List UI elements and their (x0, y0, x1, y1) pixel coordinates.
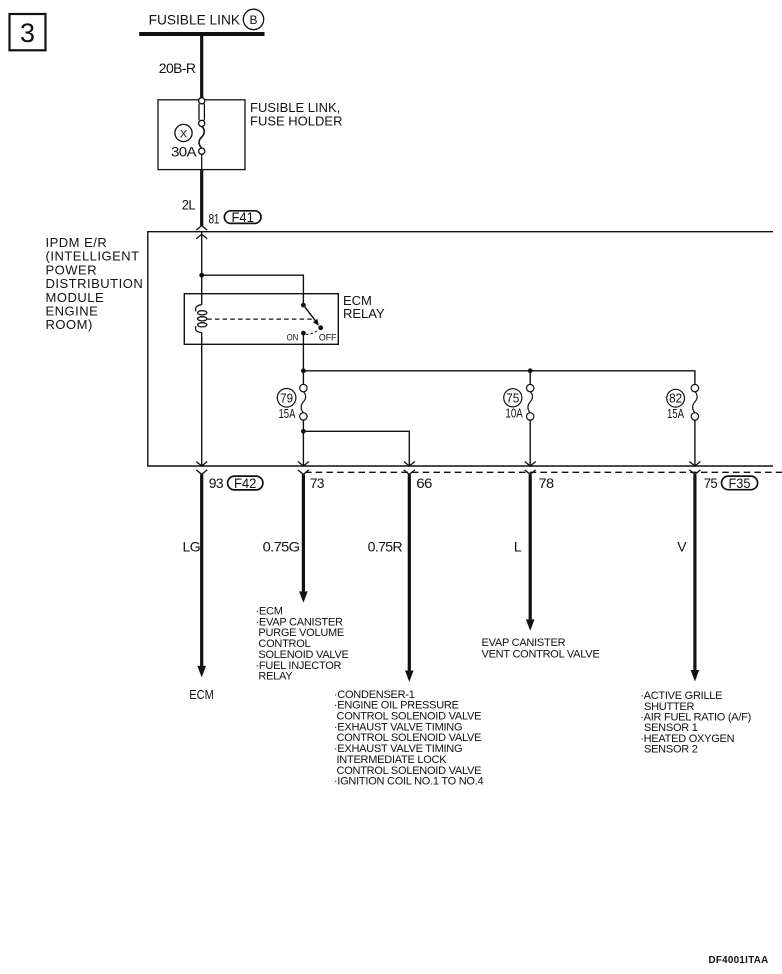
ECM relay coil (196, 305, 207, 333)
svg-text:79: 79 (280, 390, 293, 405)
label IPDM E/R (INTELLIGENT POWER DISTRIBUTION MODULE ENGINE ROOM) (46, 235, 144, 332)
svg-text:EVAP CANISTER: EVAP CANISTER (482, 637, 566, 649)
label fuse 75 10A (504, 389, 523, 421)
label list ECM EVAP canister purge volume control solenoid valve fuel injector relay (256, 606, 349, 683)
svg-text:20B-R: 20B-R (159, 60, 196, 76)
label FUSIBLE LINK, FUSE HOLDER (250, 100, 342, 128)
connector F35 dashed boundary (305, 471, 782, 473)
fusible link rating X 30A (171, 124, 197, 159)
svg-text:V: V (677, 538, 687, 554)
label fuse 79 15A (277, 389, 296, 422)
svg-text:FUSE HOLDER: FUSE HOLDER (250, 113, 342, 128)
svg-text:15A: 15A (279, 406, 296, 421)
svg-text:2L: 2L (182, 197, 196, 213)
svg-text:F41: F41 (231, 210, 254, 225)
node junction fuse 75 (528, 368, 533, 373)
svg-text:ROOM): ROOM) (46, 317, 93, 332)
label EVAP canister vent control valve (482, 637, 600, 661)
svg-text:OFF: OFF (319, 332, 337, 343)
svg-text:X: X (180, 128, 188, 140)
connector F35 (722, 476, 758, 491)
IPDM E/R box (148, 232, 773, 466)
svg-text:93: 93 (209, 475, 224, 491)
svg-text:B: B (249, 13, 257, 27)
wire LG to ECM (197, 474, 206, 677)
label ECM RELAY (343, 293, 385, 321)
power bus bar (139, 32, 264, 36)
wire V (691, 474, 700, 681)
fuse 82 element (691, 384, 698, 466)
svg-text:15A: 15A (667, 406, 684, 421)
connector F41 (224, 210, 261, 225)
label list condenser-1 engine oil pressure control solenoid valve exhaust valve timing ignition coil (334, 689, 484, 788)
sheet number 3 (10, 14, 46, 50)
svg-text:3: 3 (20, 18, 35, 48)
svg-text:78: 78 (539, 475, 555, 491)
ECM relay OFF dashed arc (306, 330, 319, 335)
connector crossing pin 78 (525, 462, 536, 475)
svg-text:0.75G: 0.75G (263, 538, 300, 554)
svg-text:73: 73 (310, 475, 325, 491)
connector crossing into IPDM at pin 81 (196, 226, 207, 239)
node junction fuse 79 (301, 368, 306, 373)
fuse 79 element (300, 384, 307, 420)
svg-text:VENT CONTROL VALVE: VENT CONTROL VALVE (482, 649, 600, 661)
svg-text:ON: ON (287, 332, 299, 343)
ECM relay ON contact (301, 331, 306, 345)
fusible link element (199, 98, 205, 170)
wire 0.75G (299, 474, 308, 602)
svg-text:·IGNITION COIL NO.1 TO NO.4: ·IGNITION COIL NO.1 TO NO.4 (334, 776, 484, 788)
svg-text:ECM: ECM (189, 688, 214, 702)
fuse bus wire to fuse 82 (303, 371, 695, 385)
wire fuse 79 to pin 73 (302, 420, 304, 466)
svg-text:FUSIBLE LINK: FUSIBLE LINK (149, 11, 241, 27)
wire 0.75R (405, 474, 414, 682)
connector crossing pin 66 (404, 462, 415, 475)
svg-text:30A: 30A (171, 143, 197, 159)
svg-text:SENSOR 2: SENSOR 2 (644, 743, 698, 755)
connector crossing pin 93 (196, 462, 207, 475)
svg-text:66: 66 (416, 475, 432, 491)
ECM relay box (184, 294, 338, 345)
wire 20B-R (200, 36, 203, 98)
label list active grille shutter air fuel ratio sensor heated oxygen sensor (640, 690, 751, 755)
svg-text:75: 75 (704, 475, 718, 491)
connector crossing pin 75 (689, 462, 700, 475)
svg-text:DF4001ITAA: DF4001ITAA (709, 955, 769, 966)
circled B (243, 9, 263, 29)
fusible link fuse holder box (158, 100, 245, 170)
svg-text:82: 82 (669, 391, 682, 406)
node junction branch pin 66 (301, 429, 306, 434)
fuse 75 element (527, 371, 534, 466)
wire 2L (200, 170, 203, 226)
node junction relay branch (199, 273, 204, 278)
label fuse 82 15A (667, 389, 685, 421)
wire L to EVAP canister vent control valve (526, 474, 535, 630)
svg-text:F42: F42 (234, 476, 257, 491)
svg-text:F35: F35 (729, 476, 751, 491)
ECM relay control dashed link (207, 318, 313, 320)
svg-text:81: 81 (209, 211, 220, 227)
svg-text:10A: 10A (505, 406, 523, 421)
wire relay switch to fuse bus (302, 344, 304, 384)
svg-text:L: L (514, 538, 522, 554)
connector crossing pin 73 (298, 462, 309, 475)
svg-text:LG: LG (183, 538, 200, 554)
connector F42 (228, 476, 263, 491)
wire branch to pin 66 (303, 431, 409, 466)
svg-text:RELAY: RELAY (258, 671, 293, 683)
wire branch to relay switch (202, 275, 304, 305)
power feed title FUSIBLE LINK (149, 11, 241, 27)
svg-text:RELAY: RELAY (343, 306, 385, 321)
ECM relay switch arm (301, 303, 323, 330)
wire pin 81 through relay coil to pin 93 (201, 232, 203, 305)
svg-text:75: 75 (506, 390, 519, 405)
svg-text:0.75R: 0.75R (368, 538, 403, 554)
